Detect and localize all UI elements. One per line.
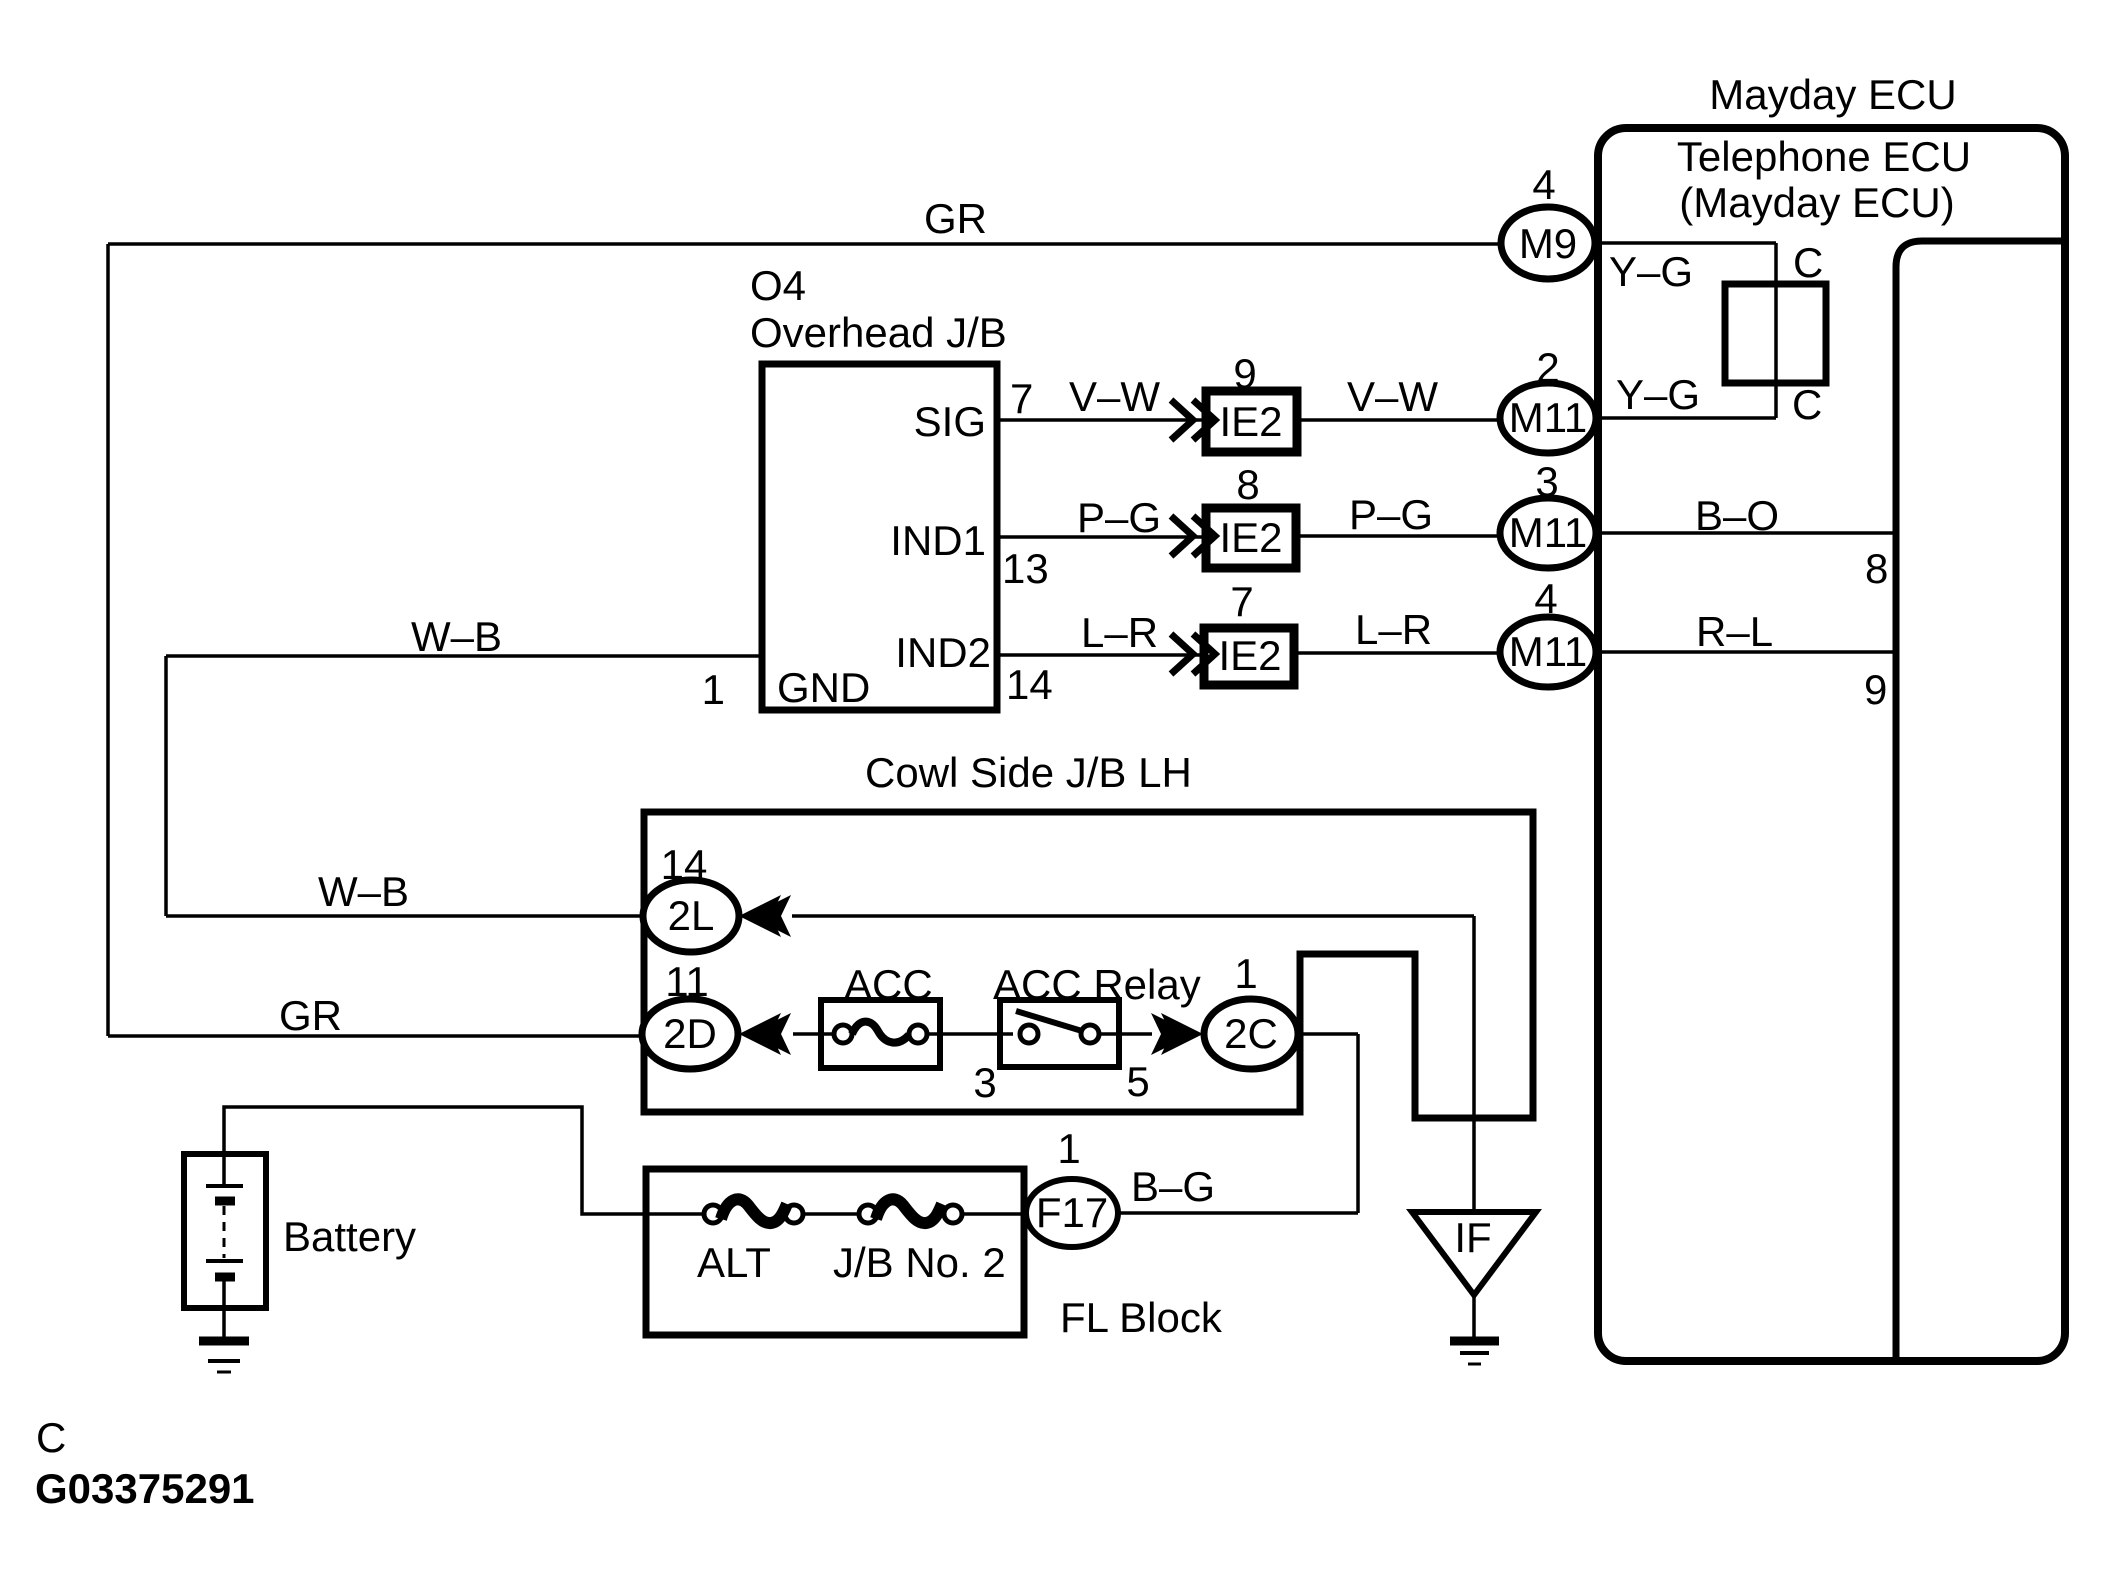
wire B-G vertical riser [1356,1034,1360,1213]
svg-text:14: 14 [1006,661,1053,708]
connector F17 [1026,1179,1118,1247]
svg-text:5: 5 [1126,1058,1149,1105]
svg-text:1: 1 [702,666,725,713]
svg-text:SIG: SIG [914,398,986,445]
arrow solid at 2L [739,895,781,937]
shield square node C [1725,284,1826,383]
svg-text:C: C [36,1414,66,1461]
wire J/B No.2 link to F17 [961,1212,1027,1216]
Mayday ECU inner divider [1896,241,2065,1361]
svg-text:1: 1 [1234,950,1257,997]
connector IE2 box row 1 [1206,391,1297,452]
svg-text:GND: GND [777,664,870,711]
junction block O4 Overhead J/B [762,364,997,710]
svg-text:2: 2 [1536,344,1559,391]
wire battery negative to ground [222,1281,226,1339]
svg-text:L–R: L–R [1355,606,1432,653]
wire P-G from IND1 pin 13 to IE2 [997,535,1206,539]
relay ACC Relay element [1020,1025,1038,1043]
wire 2C to B-G riser [1298,1032,1358,1036]
connector M11 pin 4 [1500,617,1596,687]
svg-text:F17: F17 [1036,1189,1108,1236]
svg-text:11: 11 [665,958,709,1005]
svg-text:IND2: IND2 [895,629,991,676]
ground below IF [1450,1337,1499,1346]
svg-text:C: C [1792,381,1822,428]
wire Y-G vertical through C square [1774,243,1778,418]
arrow chevrons into IE2 row 3 [1171,634,1215,674]
connector M11 pin 3 [1500,498,1596,568]
battery cell symbol [206,1184,243,1188]
svg-text:2C: 2C [1224,1010,1278,1057]
svg-text:3: 3 [1535,458,1558,505]
connector 2D [642,999,738,1069]
svg-text:M11: M11 [1509,394,1588,441]
wire W-B vertical [164,656,168,916]
svg-text:3: 3 [973,1059,996,1106]
wire battery to FL block [224,1107,705,1214]
connector IE2 box row 3 [1204,628,1294,685]
Mayday ECU outer box [1598,128,2065,1361]
wire V-W from IE2 to M11 pin 2 [1297,418,1501,422]
svg-text:IE2: IE2 [1219,514,1282,561]
wire GR left vertical [106,244,110,1036]
svg-text:Cowl Side J/B LH: Cowl Side J/B LH [865,749,1192,796]
svg-text:V–W: V–W [1347,373,1438,420]
fuse ACC box [821,1000,940,1068]
connector 2L [643,880,739,952]
svg-text:7: 7 [1010,375,1033,422]
svg-text:IE2: IE2 [1218,632,1281,679]
wire 2D arrow to ACC fuse [793,1032,835,1036]
wire GR bottom to 2D [108,1034,646,1038]
arrow solid at 2D [739,1013,781,1055]
wire V-W from SIG pin 7 to IE2 [997,418,1206,422]
wire GR from M9 to left side [108,242,1501,246]
svg-text:Mayday ECU: Mayday ECU [1709,71,1956,118]
svg-text:B–G: B–G [1131,1163,1215,1210]
wire ACC fuse to ACC relay [926,1032,1013,1036]
FL Block box [646,1169,1024,1335]
svg-text:GR: GR [279,992,342,1039]
svg-text:P–G: P–G [1349,491,1433,538]
arrow solid into 2C [1161,1013,1203,1055]
svg-text:M11: M11 [1509,509,1588,556]
wire W-B from O4 GND pin 1 [166,654,762,658]
svg-text:B–O: B–O [1695,492,1779,539]
svg-text:R–L: R–L [1696,608,1773,655]
svg-text:W–B: W–B [411,613,502,660]
svg-text:(Mayday ECU): (Mayday ECU) [1679,179,1954,226]
relay ACC Relay box [1000,1000,1119,1067]
arrow chevrons into IE2 row 1 [1171,400,1215,440]
svg-text:Telephone ECU: Telephone ECU [1677,133,1971,180]
wire between ALT and J/B No.2 links [802,1212,860,1216]
wire IF apex to ground [1472,1295,1476,1338]
svg-text:8: 8 [1236,461,1259,508]
fusible link ALT [704,1205,722,1223]
svg-text:2L: 2L [668,892,715,939]
wire W-B to 2L [166,914,645,918]
svg-text:J/B No. 2: J/B No. 2 [833,1239,1006,1286]
svg-text:IND1: IND1 [890,517,986,564]
wire Y-G top from M9 [1597,241,1776,245]
battery box [184,1154,266,1308]
wire P-G from IE2 to M11 pin 3 [1296,534,1501,538]
wire L-R from IND2 pin 14 to IE2 [997,653,1205,657]
svg-text:4: 4 [1532,161,1555,208]
svg-text:9: 9 [1864,666,1887,713]
svg-text:7: 7 [1230,578,1253,625]
wire vertical to IF ground [1472,916,1476,1211]
svg-text:G03375291: G03375291 [35,1465,255,1512]
svg-text:Battery: Battery [283,1213,416,1260]
svg-text:M11: M11 [1509,628,1588,675]
wire R-L inside ECU [1595,650,1894,654]
wire Y-G bottom to M11 pin 2 [1597,416,1776,420]
arrow chevrons into IE2 row 2 [1171,516,1215,556]
svg-text:9: 9 [1233,350,1256,397]
svg-text:FL Block: FL Block [1060,1294,1223,1341]
svg-text:V–W: V–W [1069,373,1160,420]
svg-text:IF: IF [1454,1214,1491,1261]
connector 2C [1204,999,1298,1069]
svg-text:2D: 2D [663,1010,717,1057]
fusible link J/B No.2 [859,1205,877,1223]
wire B-G from F17 [1117,1211,1358,1215]
connector M9 [1501,207,1595,279]
svg-text:Y–G: Y–G [1616,371,1700,418]
svg-text:13: 13 [1002,545,1049,592]
wire B-O inside ECU [1595,531,1894,535]
wire L-R from IE2 to M11 pin 4 [1293,651,1501,655]
svg-text:IE2: IE2 [1219,398,1282,445]
connector IE2 box row 2 [1206,508,1296,568]
svg-text:ACC Relay: ACC Relay [993,961,1201,1008]
ground node IF triangle [1412,1212,1536,1295]
wire ACC relay to 2C arrow [1098,1032,1152,1036]
connector M11 pin 2 [1500,383,1596,453]
svg-text:ACC: ACC [844,961,933,1008]
svg-text:ALT: ALT [697,1239,771,1286]
svg-text:1: 1 [1057,1125,1080,1172]
svg-text:C: C [1793,239,1823,286]
ground below battery [199,1337,249,1346]
svg-text:W–B: W–B [318,868,409,915]
fuse ACC element [834,1025,852,1043]
svg-text:Overhead J/B: Overhead J/B [750,309,1007,356]
svg-text:8: 8 [1865,545,1888,592]
svg-text:O4: O4 [750,262,806,309]
svg-text:GR: GR [924,195,987,242]
junction block Cowl Side J/B LH [644,812,1533,1118]
svg-text:P–G: P–G [1077,494,1161,541]
svg-text:L–R: L–R [1081,609,1158,656]
svg-text:14: 14 [661,841,708,888]
svg-text:4: 4 [1534,575,1557,622]
wire from 2L arrow to IF drop [792,914,1474,918]
svg-text:M9: M9 [1519,220,1577,267]
svg-text:Y–G: Y–G [1609,248,1693,295]
